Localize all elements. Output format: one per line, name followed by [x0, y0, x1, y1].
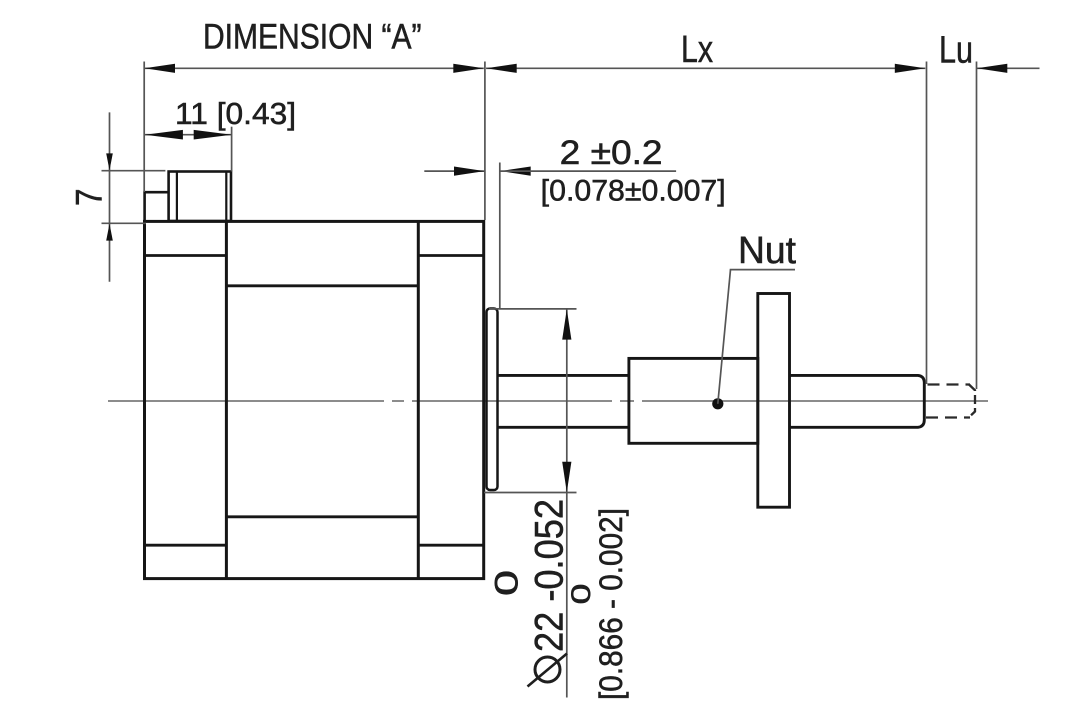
Nut leader line [718, 270, 731, 404]
terminal housing inner right line [225, 172, 227, 222]
11 dimension extension line right [231, 127, 233, 172]
lamination stack top line [226, 284, 418, 287]
11 left arrow [145, 130, 183, 140]
DIMENSION A left arrow [145, 64, 176, 73]
Lu right arrow [977, 64, 1008, 73]
7 dimension extension line top [102, 170, 166, 172]
Lu dimension tail line [977, 67, 1040, 69]
11 dimension line [145, 134, 232, 136]
lead screw shaft left section [498, 374, 631, 377]
2 +/-0.2 extension line (boss face) [499, 163, 501, 309]
7 upper arrow (down) [106, 153, 113, 170]
front cap bottom inner line [418, 544, 484, 547]
phi22 up arrow [562, 309, 571, 340]
svg-text:2 ±0.2: 2 ±0.2 [560, 134, 663, 172]
diameter symbol circle [535, 657, 560, 682]
svg-text:22 -0.052: 22 -0.052 [528, 499, 572, 652]
2 +/-0.2 left arrow (pointing right) [454, 167, 485, 176]
svg-text:Lx: Lx [681, 29, 713, 71]
terminal housing tall block on motor top [169, 172, 231, 222]
extension line Lx right / Lu left [926, 62, 928, 385]
centerline [108, 400, 988, 402]
svg-text:Nut: Nut [738, 230, 796, 272]
diameter symbol slash [528, 654, 568, 687]
phi22 extension line bottom [484, 492, 577, 494]
svg-text:0: 0 [566, 584, 596, 605]
2 +/-0.2 right arrow (pointing left) [500, 167, 531, 176]
nut flange [758, 294, 790, 508]
front cap top inner line [418, 254, 484, 257]
phi22 dimension line vertical [566, 309, 568, 698]
7 dimension line [109, 112, 111, 281]
lamination stack bottom line [226, 515, 418, 518]
extension line Lu right [976, 62, 978, 390]
motor rear end-cap separator line [225, 221, 228, 578]
dashed screw end chamfer and face [969, 385, 975, 418]
Lx left arrow [486, 64, 517, 73]
rear cap bottom inner line [145, 544, 227, 547]
7 lower arrow (up) [106, 224, 113, 241]
svg-text:0: 0 [489, 570, 525, 596]
Nut leader underline [730, 269, 795, 271]
motor body outer rectangle [145, 221, 484, 578]
lead screw shaft right section with rounded end cap [790, 375, 925, 427]
phi22 down arrow [562, 462, 571, 493]
motor front end-cap separator line [417, 221, 420, 578]
svg-text:11 [0.43]: 11 [0.43] [175, 96, 296, 131]
svg-text:DIMENSION “A”: DIMENSION “A” [203, 18, 422, 57]
Lx right arrow [895, 64, 926, 73]
terminal housing left step [145, 192, 169, 221]
pilot boss on motor face [487, 309, 498, 491]
7 dimension extension line bottom [102, 222, 147, 224]
nut body [629, 358, 758, 443]
svg-text:7: 7 [69, 189, 110, 207]
terminal housing inner left line [176, 172, 178, 222]
svg-text:[0.866 - 0.002]: [0.866 - 0.002] [593, 508, 629, 700]
extension line left (motor rear face) [143, 62, 145, 193]
11 right arrow [194, 130, 232, 140]
DIMENSION A right arrow [453, 64, 484, 73]
dashed screw continuation bottom line [926, 416, 970, 418]
2 +/-0.2 dimension left tail [424, 170, 484, 172]
Lx dimension line [486, 67, 925, 69]
rear cap top inner line [145, 254, 227, 257]
extension line motor front face [484, 62, 486, 221]
svg-text:[0.078±0.007]: [0.078±0.007] [541, 175, 726, 208]
Nut leader dot [712, 398, 723, 409]
phi22 extension line top [489, 308, 577, 310]
DIMENSION A dimension line [144, 67, 484, 69]
svg-text:Lu: Lu [939, 30, 973, 72]
dashed screw continuation top line [928, 383, 971, 385]
2 +/-0.2 dimension line right [500, 170, 676, 172]
